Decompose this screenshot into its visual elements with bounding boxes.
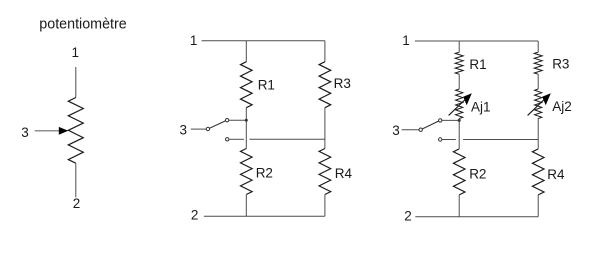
svg-text:R3: R3 <box>552 56 569 71</box>
resistor R1 (middle) <box>241 62 253 108</box>
svg-text:2: 2 <box>73 196 81 211</box>
switch blade (middle) <box>210 121 226 128</box>
wire upper tap to left branch (middle) <box>229 119 247 121</box>
pot wiper arrowhead <box>59 127 68 135</box>
wire top rail (middle) <box>202 40 325 42</box>
switch pole contact circle (middle) <box>206 127 209 130</box>
trimmer Aj1 arrow <box>449 93 472 115</box>
svg-text:2: 2 <box>191 208 199 223</box>
trimmer Aj2 arrow <box>528 93 551 115</box>
svg-text:1: 1 <box>190 33 198 48</box>
svg-text:R1: R1 <box>258 78 275 93</box>
wire left branch middle segment <box>245 108 247 149</box>
svg-text:1: 1 <box>72 45 80 60</box>
svg-text:2: 2 <box>404 208 412 223</box>
wire right branch bottom segment (right) <box>537 195 539 217</box>
wire right branch top segment <box>324 41 326 62</box>
resistor R4 (right) <box>532 149 544 195</box>
wire left branch middle segment (right) <box>458 119 460 149</box>
wire between R3 and Aj2 <box>537 74 539 89</box>
trimmer Aj1 zigzag <box>456 89 463 119</box>
svg-text:3: 3 <box>179 123 187 138</box>
wire left branch bottom segment (right) <box>458 195 460 217</box>
wire upper tap to left branch (right) <box>442 119 459 121</box>
resistor R3 (middle) <box>319 62 331 108</box>
resistor R2 (middle) <box>241 149 253 195</box>
wire middle link right part (middle) <box>249 138 325 140</box>
svg-text:R1: R1 <box>469 57 486 72</box>
trimmer Aj2 zigzag <box>535 89 542 119</box>
svg-text:potentiomètre: potentiomètre <box>39 17 126 33</box>
svg-text:R4: R4 <box>547 167 565 182</box>
wire left branch top segment (right) <box>458 41 460 52</box>
wire between R1 and Aj1 <box>458 74 460 89</box>
svg-text:Aj1: Aj1 <box>471 100 491 115</box>
wire right branch middle segment (right) <box>537 119 539 149</box>
switch upper throw contact circle (right) <box>439 119 442 122</box>
svg-text:1: 1 <box>402 33 410 48</box>
svg-text:R3: R3 <box>334 76 351 91</box>
junction dot upper tap (right) <box>458 119 461 122</box>
wire right branch bottom segment <box>324 195 326 217</box>
svg-text:R2: R2 <box>256 166 273 181</box>
resistor R4 (middle) <box>319 149 331 195</box>
potentiometer resistive element <box>68 98 83 164</box>
switch lower throw contact circle (right) <box>439 138 442 141</box>
potentiometer P1 <box>39 17 126 33</box>
wire bottom rail (middle) <box>204 215 325 217</box>
wire right branch top segment (right) <box>537 41 539 52</box>
svg-text:R4: R4 <box>335 166 353 181</box>
switch lower throw contact circle (middle) <box>226 138 229 141</box>
switch upper throw contact circle (middle) <box>225 119 228 122</box>
resistor R1 (right) <box>455 52 463 74</box>
wire middle link left part (middle, hops over left branch) <box>229 138 244 140</box>
switch pole contact circle (right) <box>419 128 422 131</box>
wire bottom rail (right) <box>415 216 538 218</box>
wire from node 3 to switch pole (middle) <box>191 128 206 130</box>
svg-text:3: 3 <box>21 125 29 140</box>
wire pot top lead <box>75 67 77 98</box>
svg-text:Aj2: Aj2 <box>552 99 572 114</box>
wire pot wiper arrow shaft <box>35 130 60 132</box>
svg-text:3: 3 <box>392 123 400 138</box>
switch blade (right) <box>422 121 438 129</box>
junction dot upper tap (middle) <box>245 119 248 122</box>
wire pot bottom lead <box>75 163 77 197</box>
resistor R3 (right) <box>534 52 542 74</box>
wire middle link left part (right, hops over left branch) <box>442 139 456 141</box>
svg-text:R2: R2 <box>469 166 486 181</box>
resistor R2 (right) <box>453 149 465 195</box>
wire from node 3 to switch pole (right) <box>402 129 419 131</box>
wire top rail (right) <box>415 40 538 42</box>
wire right branch middle segment <box>324 108 326 149</box>
wire left branch bottom segment <box>245 195 247 217</box>
wire left branch top segment <box>245 41 247 62</box>
wire middle link right part (right) <box>463 139 538 141</box>
